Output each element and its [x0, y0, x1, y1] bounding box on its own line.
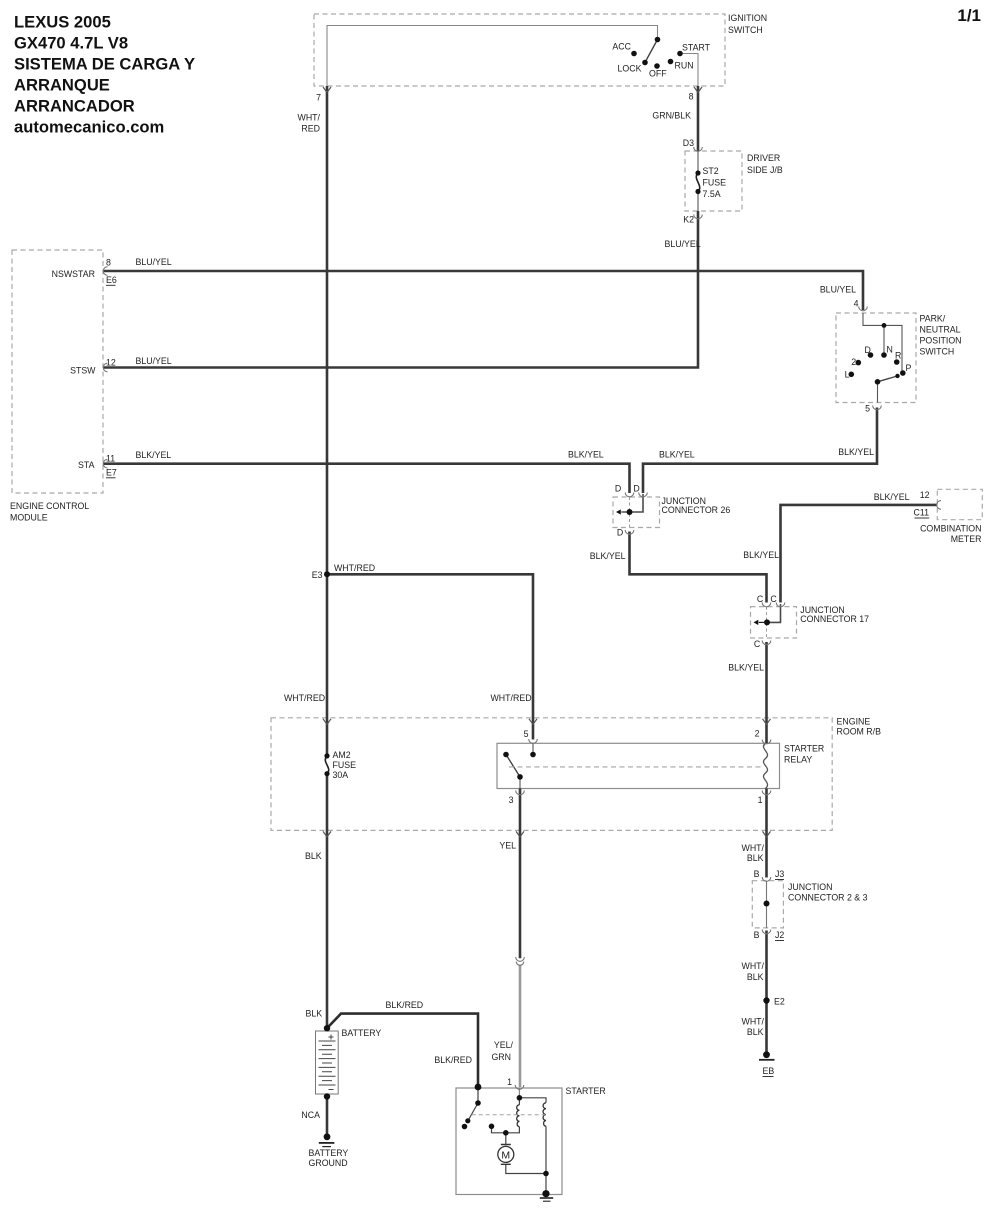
svg-text:NCA: NCA [301, 1110, 320, 1120]
svg-text:NSWSTAR: NSWSTAR [52, 269, 95, 279]
svg-text:M: M [501, 1149, 510, 1161]
svg-text:E3: E3 [312, 570, 323, 580]
svg-text:STARTER: STARTER [566, 1086, 606, 1096]
svg-text:12: 12 [920, 490, 930, 500]
svg-text:D3: D3 [683, 138, 694, 148]
svg-text:GROUND: GROUND [309, 1158, 348, 1168]
svg-text:30A: 30A [333, 770, 349, 780]
svg-text:BATTERY: BATTERY [342, 1028, 382, 1038]
svg-text:YEL/: YEL/ [494, 1040, 514, 1050]
svg-text:SISTEMA DE CARGA Y: SISTEMA DE CARGA Y [14, 55, 195, 74]
svg-text:COMBINATION: COMBINATION [920, 524, 981, 534]
svg-text:automecanico.com: automecanico.com [14, 118, 164, 137]
svg-text:BLK: BLK [747, 853, 764, 863]
svg-text:WHT/RED: WHT/RED [334, 563, 375, 573]
svg-text:WHT/: WHT/ [742, 1017, 765, 1027]
svg-text:P: P [906, 363, 912, 373]
svg-text:JUNCTION: JUNCTION [788, 882, 832, 892]
svg-text:BLU/YEL: BLU/YEL [820, 285, 856, 295]
svg-text:BLK: BLK [747, 972, 764, 982]
svg-text:D: D [865, 345, 871, 355]
svg-text:LEXUS 2005: LEXUS 2005 [14, 13, 111, 32]
svg-text:3: 3 [509, 795, 514, 805]
svg-text:ARRANCADOR: ARRANCADOR [14, 97, 135, 116]
svg-text:RUN: RUN [675, 61, 694, 71]
svg-text:8: 8 [689, 92, 694, 102]
svg-text:DRIVER: DRIVER [747, 153, 780, 163]
svg-text:J3: J3 [775, 869, 784, 879]
svg-text:E7: E7 [106, 468, 117, 478]
svg-text:ENGINE CONTROL: ENGINE CONTROL [10, 501, 89, 511]
svg-text:K2: K2 [683, 215, 694, 225]
svg-text:BLK: BLK [306, 1009, 323, 1019]
svg-text:POSITION: POSITION [920, 336, 962, 346]
svg-text:D: D [615, 484, 621, 494]
svg-text:WHT/RED: WHT/RED [284, 693, 325, 703]
svg-text:12: 12 [106, 358, 116, 368]
svg-text:WHT/RED: WHT/RED [491, 693, 532, 703]
svg-text:2: 2 [755, 729, 760, 739]
svg-text:METER: METER [951, 534, 982, 544]
svg-text:E2: E2 [774, 997, 785, 1007]
svg-text:11: 11 [106, 454, 115, 464]
svg-text:N: N [887, 345, 893, 355]
svg-text:E6: E6 [106, 275, 117, 285]
svg-text:CONNECTOR 26: CONNECTOR 26 [662, 505, 731, 515]
svg-text:BLU/YEL: BLU/YEL [136, 257, 172, 267]
svg-text:ENGINE: ENGINE [837, 717, 871, 727]
svg-text:RELAY: RELAY [784, 755, 812, 765]
svg-text:ARRANQUE: ARRANQUE [14, 76, 110, 95]
svg-text:WHT/: WHT/ [742, 843, 765, 853]
svg-text:STSW: STSW [70, 366, 96, 376]
svg-text:EB: EB [763, 1066, 775, 1076]
svg-text:J2: J2 [775, 930, 784, 940]
svg-text:MODULE: MODULE [10, 513, 48, 523]
svg-text:4: 4 [854, 299, 859, 309]
svg-text:SWITCH: SWITCH [920, 347, 955, 357]
svg-text:C: C [757, 594, 764, 604]
svg-text:PARK/: PARK/ [920, 314, 946, 324]
svg-text:1/1: 1/1 [957, 6, 981, 25]
svg-text:GX470 4.7L V8: GX470 4.7L V8 [14, 34, 128, 53]
svg-text:WHT/: WHT/ [298, 113, 321, 123]
svg-text:BLK/RED: BLK/RED [386, 1000, 424, 1010]
svg-text:BLK/YEL: BLK/YEL [728, 663, 764, 673]
svg-text:2: 2 [851, 357, 856, 367]
svg-text:ACC: ACC [612, 42, 631, 52]
svg-text:BLK/YEL: BLK/YEL [590, 551, 626, 561]
svg-text:IGNITION: IGNITION [728, 13, 767, 23]
svg-text:5: 5 [524, 729, 529, 739]
svg-text:OFF: OFF [649, 69, 667, 79]
svg-text:CONNECTOR 17: CONNECTOR 17 [800, 614, 869, 624]
svg-text:BLK/YEL: BLK/YEL [659, 450, 695, 460]
svg-text:BLK: BLK [747, 1027, 764, 1037]
svg-text:BLU/YEL: BLU/YEL [136, 356, 172, 366]
svg-text:YEL: YEL [499, 841, 516, 851]
svg-text:BLK/YEL: BLK/YEL [568, 450, 604, 460]
svg-text:C11: C11 [914, 508, 930, 518]
svg-text:B: B [754, 930, 760, 940]
svg-text:STARTER: STARTER [784, 744, 824, 754]
svg-text:AM2: AM2 [333, 750, 351, 760]
svg-text:5: 5 [865, 404, 870, 414]
svg-text:LOCK: LOCK [618, 64, 642, 74]
svg-text:ROOM R/B: ROOM R/B [837, 727, 882, 737]
svg-text:C: C [770, 594, 777, 604]
svg-text:BLK/YEL: BLK/YEL [838, 447, 874, 457]
svg-text:BLK/RED: BLK/RED [434, 1055, 472, 1065]
svg-text:C: C [754, 639, 761, 649]
svg-text:BLK: BLK [305, 851, 322, 861]
svg-text:D: D [633, 484, 639, 494]
svg-text:SWITCH: SWITCH [728, 25, 763, 35]
svg-text:SIDE J/B: SIDE J/B [747, 165, 783, 175]
svg-text:8: 8 [106, 258, 111, 268]
svg-text:WHT/: WHT/ [742, 961, 765, 971]
svg-text:GRN/BLK: GRN/BLK [652, 111, 691, 121]
svg-text:BATTERY: BATTERY [309, 1148, 349, 1158]
svg-text:1: 1 [758, 795, 763, 805]
svg-text:ST2: ST2 [703, 166, 719, 176]
svg-text:R: R [895, 351, 901, 361]
svg-text:7.5A: 7.5A [703, 189, 721, 199]
svg-text:FUSE: FUSE [333, 760, 357, 770]
svg-text:STA: STA [78, 460, 95, 470]
svg-text:GRN: GRN [491, 1052, 511, 1062]
svg-text:BLK/YEL: BLK/YEL [743, 550, 779, 560]
svg-text:BLK/YEL: BLK/YEL [136, 450, 172, 460]
svg-text:BLK/YEL: BLK/YEL [874, 492, 910, 502]
svg-text:START: START [682, 43, 711, 53]
svg-text:7: 7 [316, 93, 321, 103]
svg-text:L: L [845, 370, 850, 380]
svg-text:RED: RED [301, 124, 320, 134]
svg-text:CONNECTOR 2 & 3: CONNECTOR 2 & 3 [788, 893, 868, 903]
svg-text:FUSE: FUSE [703, 178, 727, 188]
svg-text:NEUTRAL: NEUTRAL [920, 325, 961, 335]
svg-text:B: B [754, 869, 760, 879]
svg-text:1: 1 [507, 1077, 512, 1087]
svg-text:BLU/YEL: BLU/YEL [665, 239, 701, 249]
svg-text:D: D [617, 528, 623, 538]
